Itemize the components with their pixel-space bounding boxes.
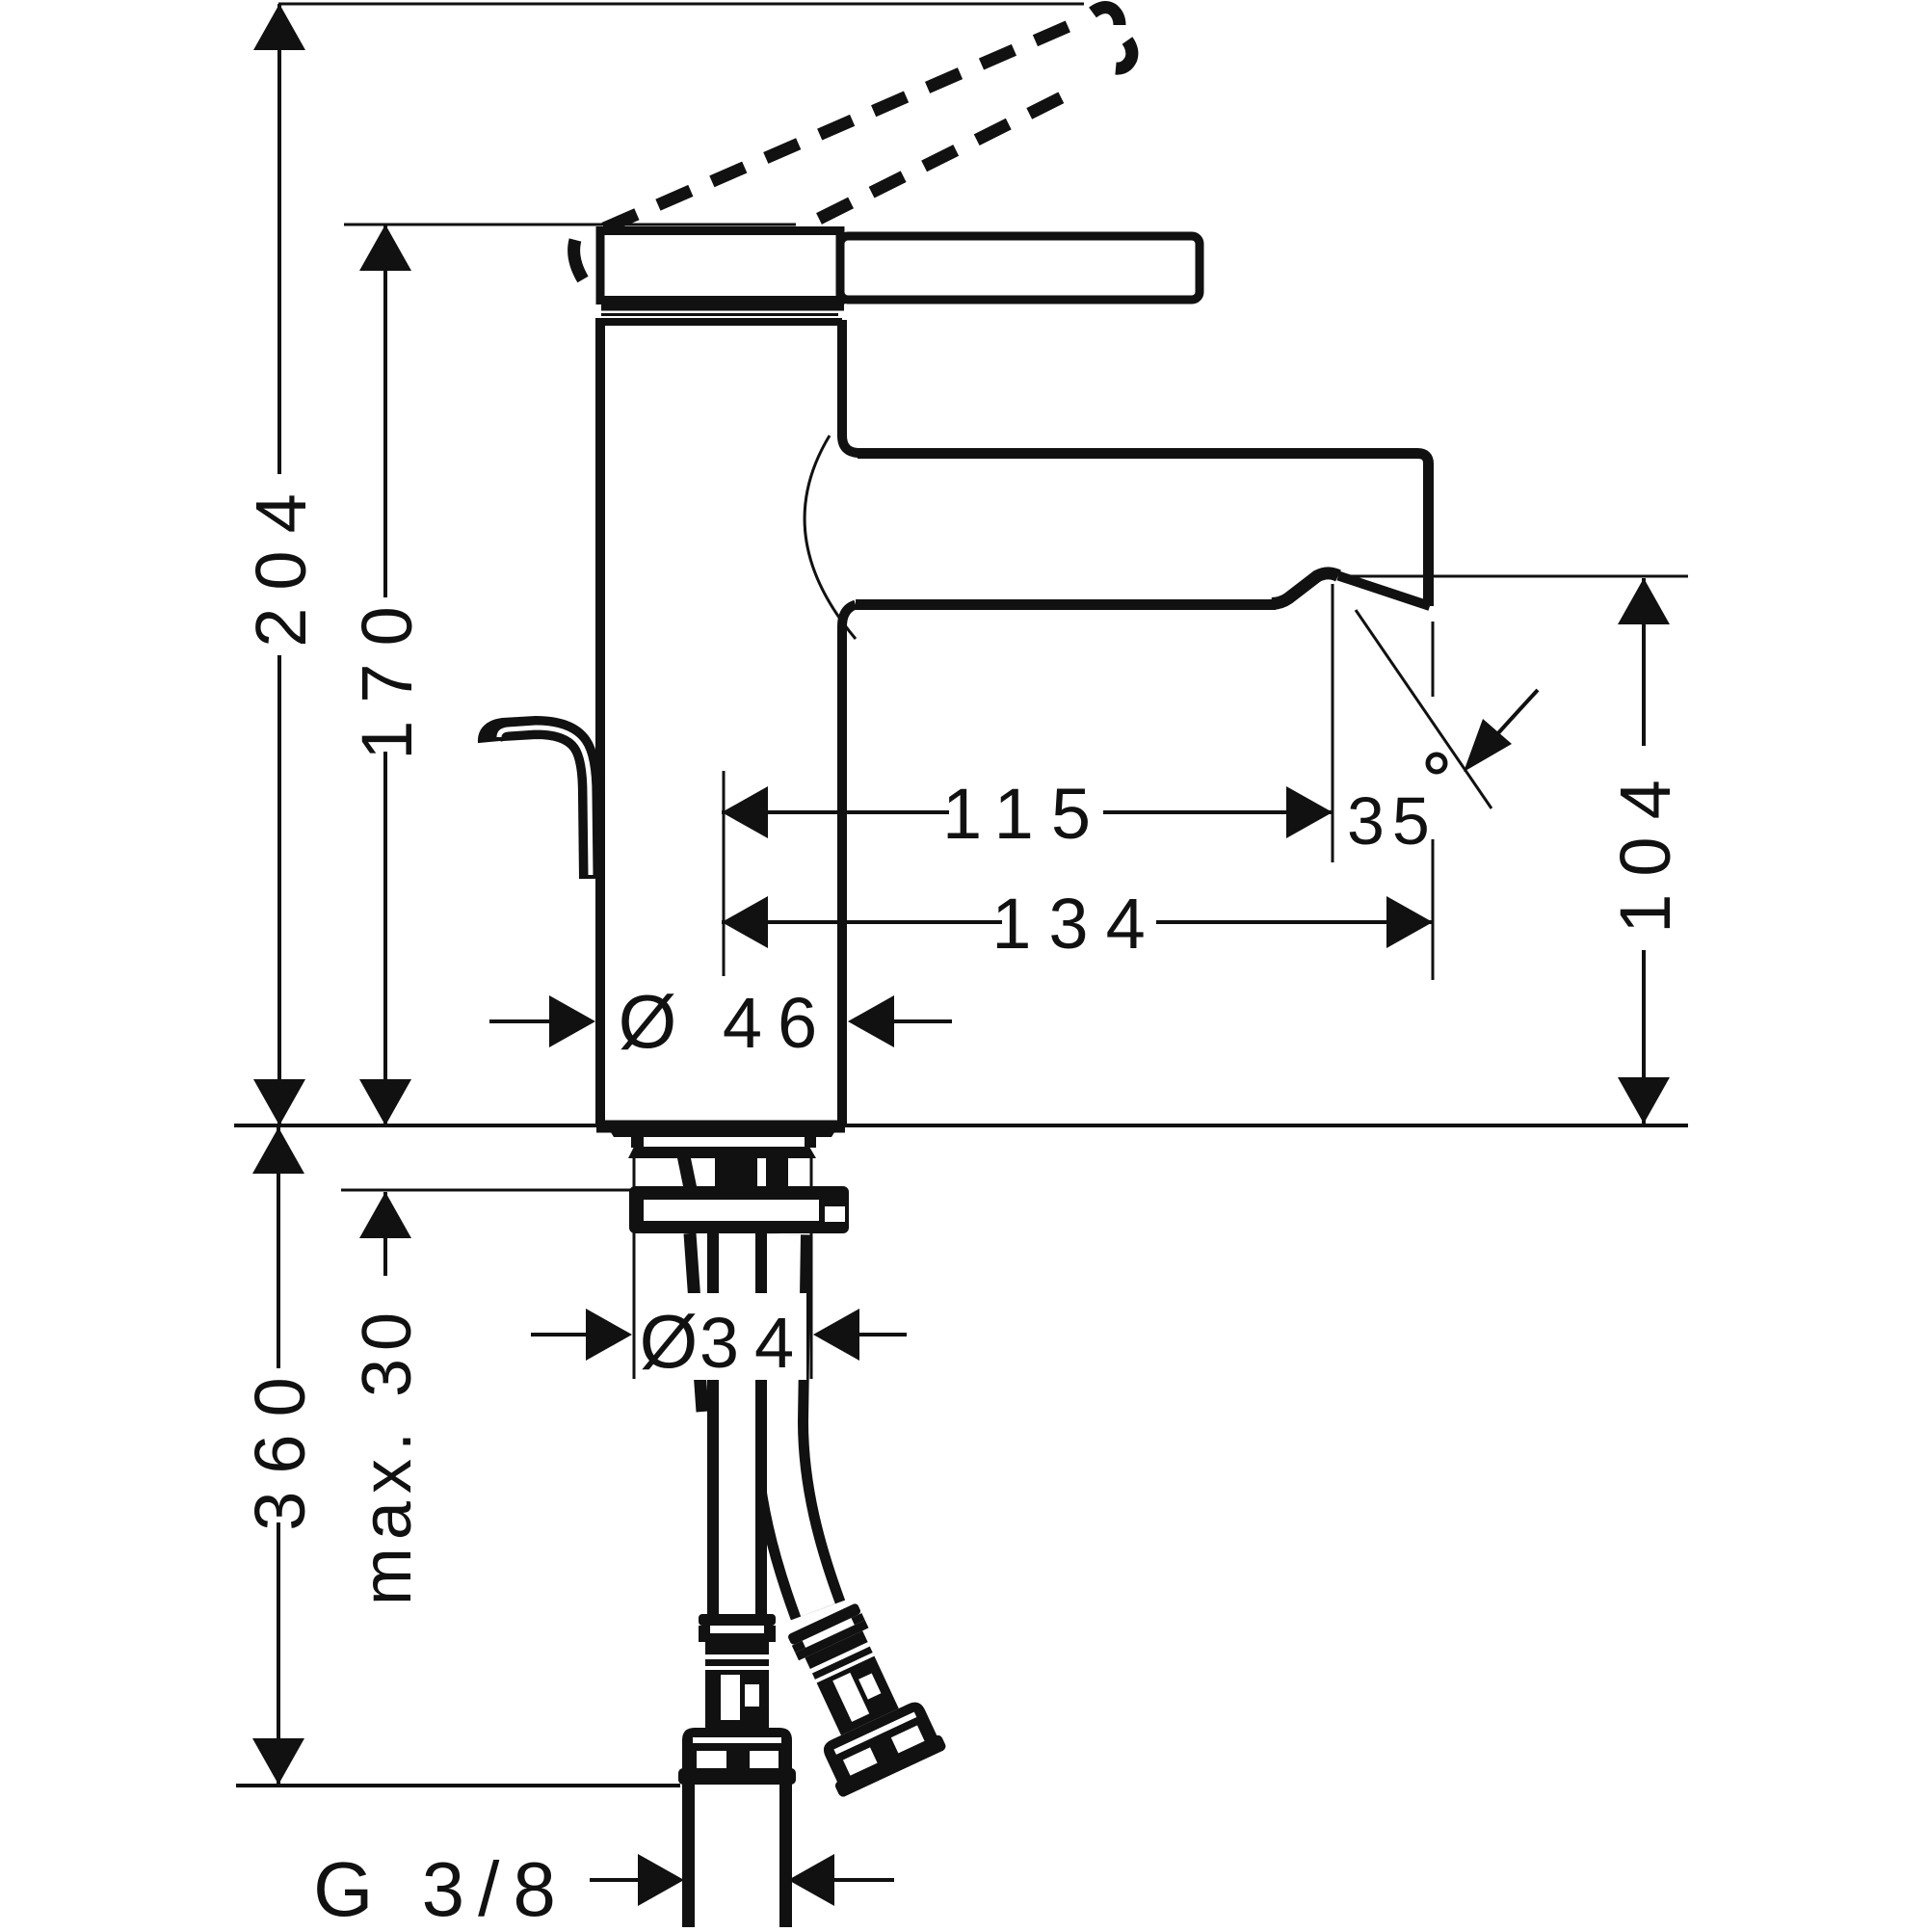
arrowhead G3/8 right xyxy=(788,1854,834,1906)
svg-text:Ø: Ø xyxy=(640,1299,699,1384)
extension line at spout end, lower segment xyxy=(1432,839,1435,980)
spout notch crest xyxy=(1272,573,1338,604)
dimension line G3/8 left segment xyxy=(590,1878,643,1882)
35 degree chamfer reference diagonal xyxy=(1356,610,1491,808)
body top line xyxy=(600,318,842,326)
handle cap xyxy=(600,231,840,301)
vertical hose compression fitting xyxy=(678,1614,796,1785)
dimension line 104 upper segment xyxy=(1642,578,1646,746)
slanted hose compression fitting xyxy=(769,1594,947,1798)
base collar trapezoid xyxy=(606,1125,839,1137)
slanted supply hose tube xyxy=(779,1234,818,1610)
spout top and end outline xyxy=(858,454,1429,607)
arrowhead 360 bottom xyxy=(252,1738,304,1785)
dimension line 115 right segment xyxy=(1103,810,1333,814)
dashed raised-handle upper edge xyxy=(604,17,1089,228)
svg-text:115: 115 xyxy=(942,774,1108,854)
arrowhead 134 left xyxy=(722,896,768,948)
arrowhead 360 top xyxy=(252,1127,304,1174)
extension line, counter underside for max. 30 xyxy=(341,1189,636,1192)
drain pull rod xyxy=(489,728,591,879)
arrowhead 104 top xyxy=(1618,578,1670,624)
body right edge lower with fillet xyxy=(842,605,856,1125)
dimension line max. 30 xyxy=(383,1192,387,1276)
arrowhead 115 right xyxy=(1286,786,1333,838)
arrowhead 104 bottom xyxy=(1618,1077,1670,1124)
dimension line 204 lower segment xyxy=(277,655,281,1125)
body bottom edge xyxy=(596,1121,845,1133)
G3/8 tail pipe right wall xyxy=(779,1785,792,1927)
dimension line 170 upper segment xyxy=(383,225,387,597)
vertical supply hose tube bore xyxy=(719,1233,755,1616)
drain pull rod inner white split xyxy=(499,728,591,875)
shank left silhouette extension xyxy=(633,1158,636,1379)
arrowhead max. 30 xyxy=(359,1192,411,1238)
countertop baseline xyxy=(234,1124,1688,1127)
arrowhead dia46 left xyxy=(549,995,595,1047)
arrowhead 204 bottom xyxy=(253,1079,305,1125)
base ring band xyxy=(628,1147,816,1158)
pull rod linkage in shank xyxy=(677,1158,697,1186)
base ring left block xyxy=(631,1136,644,1148)
leader arrowhead of 35 degree note xyxy=(1464,719,1512,772)
pull rod below counter xyxy=(690,1233,702,1412)
arrowhead 170 bottom xyxy=(359,1079,411,1125)
svg-text:Ø: Ø xyxy=(619,979,677,1064)
body left edge xyxy=(595,318,605,1125)
degree symbol of 35 xyxy=(1428,754,1445,772)
base ring right block xyxy=(805,1136,816,1148)
svg-text:46: 46 xyxy=(723,983,832,1063)
G3/8 tail pipe left wall xyxy=(682,1785,695,1927)
dashed raised-handle end cap upper dash xyxy=(1093,8,1120,25)
dimension line dia46 left segment xyxy=(489,1019,554,1023)
hose tails in shank left xyxy=(715,1158,757,1186)
spout outlet chamfer xyxy=(1338,576,1430,607)
extension line, handle top reference for 170 xyxy=(344,224,796,226)
collar thin joint line xyxy=(601,313,838,316)
dimension line dia34 right segment xyxy=(853,1333,907,1337)
svg-text:204: 204 xyxy=(241,476,321,647)
arrowhead 170 top xyxy=(359,225,411,271)
collar ring line xyxy=(601,304,844,311)
arrowhead dia46 right xyxy=(848,995,894,1047)
spout underside xyxy=(856,599,1276,610)
leader curve of 35 degree note xyxy=(1497,690,1538,734)
svg-text:max. 30: max. 30 xyxy=(349,1305,426,1605)
body right edge upper with fillet into spout xyxy=(842,320,859,453)
dimension line 170 lower segment xyxy=(383,752,387,1125)
handle lever bar xyxy=(840,236,1200,300)
dimension line 360 upper segment xyxy=(277,1127,280,1368)
svg-text:104: 104 xyxy=(1605,762,1685,933)
dimension line 360 lower segment xyxy=(277,1522,280,1785)
slanted supply hose tube bore xyxy=(779,1234,818,1610)
body inner arc xyxy=(805,436,856,639)
dimension line 134 right segment xyxy=(1156,920,1433,924)
dimension line G3/8 right segment xyxy=(831,1878,894,1882)
white backing of dia34 label xyxy=(637,1293,806,1380)
dimension line 204 upper segment xyxy=(277,4,281,474)
dimension line dia34 left segment xyxy=(531,1333,590,1337)
svg-text:35: 35 xyxy=(1347,783,1438,859)
svg-text:360: 360 xyxy=(240,1360,320,1530)
dimension line 104 lower segment xyxy=(1642,950,1646,1124)
svg-text:134: 134 xyxy=(991,884,1162,964)
dimension line 134 left segment xyxy=(722,920,1002,924)
svg-text:34: 34 xyxy=(700,1303,809,1383)
shank right silhouette extension xyxy=(810,1158,813,1379)
dimension line dia46 right segment xyxy=(891,1019,952,1023)
mounting flange right notch xyxy=(825,1206,845,1222)
extension line, spout outlet reference for 104 xyxy=(1346,575,1688,578)
bottom reference line for 360 xyxy=(236,1784,680,1787)
arrowhead 134 right xyxy=(1386,896,1433,948)
faucet centerline extension xyxy=(723,771,726,976)
arrowhead G3/8 left xyxy=(638,1854,684,1906)
arrowhead 204 top xyxy=(253,4,305,50)
vertical supply hose tube xyxy=(707,1233,767,1616)
mounting flange xyxy=(629,1186,849,1233)
svg-text:170: 170 xyxy=(347,589,427,759)
arrowhead 115 left xyxy=(722,786,768,838)
extension line at spout end, upper segment xyxy=(1432,622,1435,697)
extension line, top reference for 204 xyxy=(278,3,1084,6)
extension line at spout notch, x=1383 xyxy=(1332,584,1334,862)
arrowhead dia34 right xyxy=(813,1309,859,1361)
dashed raised-handle end cap lower dash xyxy=(1116,40,1132,68)
dashed raised-handle lower edge xyxy=(819,88,1081,219)
dashed raised-handle left elbow dash xyxy=(574,240,583,279)
arrowhead dia34 left xyxy=(586,1309,632,1361)
hose tails in shank right xyxy=(766,1158,788,1186)
dimension line 115 left segment xyxy=(722,810,949,814)
mounting flange slot xyxy=(644,1200,819,1221)
svg-text:G 3/8: G 3/8 xyxy=(313,1846,569,1927)
